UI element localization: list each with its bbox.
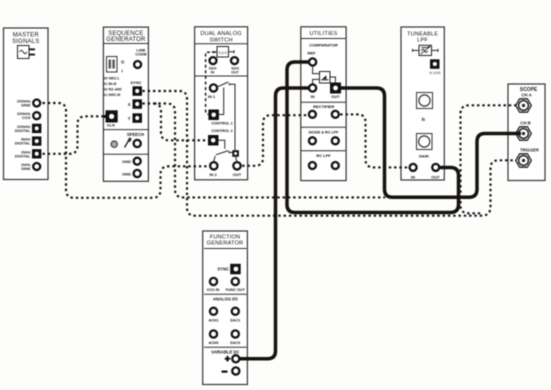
svg-text:CONTROL 2: CONTROL 2 [211,129,232,133]
svg-text:SPEECH: SPEECH [127,132,144,137]
svg-text:GENERATOR: GENERATOR [106,37,146,43]
svg-text:DIGITAL: DIGITAL [15,141,31,146]
svg-text:S & H: S & H [219,51,228,55]
svg-text:VCO IN: VCO IN [207,288,220,292]
svg-text:IN: IN [411,175,415,180]
svg-text:GENERATOR: GENERATOR [207,241,244,247]
svg-text:DAC0: DAC0 [230,341,240,345]
svg-text:SYNC: SYNC [130,80,141,85]
svg-text:SIGNALS: SIGNALS [12,39,39,45]
svg-text:ACH0: ACH0 [208,341,218,345]
svg-text:RECTIFIER: RECTIFIER [313,104,334,109]
svg-text:OUT: OUT [233,172,242,177]
svg-text:CODE: CODE [135,52,147,57]
svg-text:GAIN: GAIN [419,154,429,159]
svg-text:FUNC OUT: FUNC OUT [226,288,246,292]
svg-text:FUNCTION: FUNCTION [210,234,241,240]
svg-text:COS: COS [22,115,31,120]
svg-text:IN 2: IN 2 [209,172,217,177]
svg-text:VARIABLE DC: VARIABLE DC [211,350,239,355]
svg-text:SINE: SINE [21,103,31,108]
svg-text:RC LPF: RC LPF [316,153,331,158]
svg-text:CH B: CH B [520,120,531,125]
svg-text:IN: IN [211,70,215,74]
svg-text:fc x100: fc x100 [430,71,441,75]
svg-text:I: I [122,69,123,74]
svg-text:SINE: SINE [21,166,31,171]
svg-text:LPF: LPF [417,38,428,44]
svg-text:CLK: CLK [107,123,115,128]
svg-text:X: X [128,102,131,107]
svg-text:10 RZ-AMI: 10 RZ-AMI [104,88,122,92]
svg-text:DAC1: DAC1 [230,318,240,322]
svg-text:GND: GND [122,172,131,177]
svg-text:IN: IN [311,94,315,99]
svg-text:IN 1: IN 1 [208,94,216,99]
svg-text:TRIGGER: TRIGGER [520,147,539,152]
svg-text:SWITCH: SWITCH [209,37,232,43]
svg-text:OUT: OUT [331,94,340,99]
svg-text:DIGITAL: DIGITAL [15,128,31,133]
svg-text:DIODE & RC LPF: DIODE & RC LPF [309,130,339,134]
svg-text:REF: REF [308,51,317,56]
svg-text:DUAL ANALOG: DUAL ANALOG [200,31,241,37]
svg-text:ANALOG I/O: ANALOG I/O [213,297,239,302]
svg-text:UTILITIES: UTILITIES [310,31,338,37]
svg-text:MASTER: MASTER [13,33,40,39]
svg-text:fc: fc [422,117,426,122]
svg-text:COMPARATOR: COMPARATOR [309,43,338,48]
svg-text:00 NRZ-L: 00 NRZ-L [104,77,121,81]
svg-text:Y: Y [128,116,131,121]
svg-text:SYNC: SYNC [217,267,229,272]
svg-text:CH A: CH A [521,93,531,98]
svg-text:OUT: OUT [231,70,240,74]
svg-text:11 NRZ-M: 11 NRZ-M [104,93,121,97]
svg-text:TUNEABLE: TUNEABLE [407,31,438,37]
svg-text:SEQUENCE: SEQUENCE [108,31,143,37]
svg-text:OUT: OUT [431,175,440,180]
svg-text:DIGITAL: DIGITAL [15,153,31,158]
svg-text:CONTROL 1: CONTROL 1 [211,122,232,126]
svg-text:GND: GND [122,159,131,164]
svg-text:01 Bi-Ø: 01 Bi-Ø [104,82,117,86]
svg-text:ACH1: ACH1 [208,318,218,322]
